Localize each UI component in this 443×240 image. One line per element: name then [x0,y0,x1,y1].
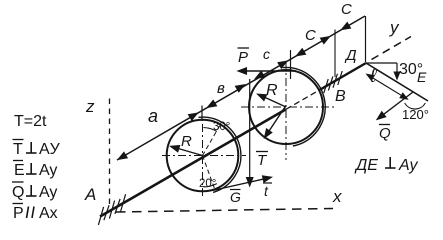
dimension line (thread) from z-axis to C [117,16,365,160]
svg-text:G: G [230,189,241,205]
dashed radius 30 deg (pulley 1 top) [203,124,221,155]
svg-text:120°: 120° [402,107,429,122]
length dimension line along DE [368,75,406,98]
svg-text:a: a [148,106,158,126]
svg-text:B: B [335,88,346,105]
svg-text:R: R [266,82,278,99]
svg-text:y: y [389,18,400,37]
x axis (horizontal dashed) [116,209,333,213]
svg-text:30°: 30° [213,121,230,133]
force Q arrow at E [378,92,413,118]
tick at tangent point of left pulley [201,106,203,122]
svg-text:Д: Д [344,47,357,64]
svg-text:z: z [85,97,95,116]
svg-text:Ay: Ay [39,162,57,179]
dim arrowheads [118,152,127,159]
pulley 2 radius arrow R [259,95,286,107]
30 deg arc (pulley 1) [204,128,217,132]
thread arc wrapped on pulley 1 rim [199,117,241,192]
pulley 2 (right disk) [249,70,323,144]
support hatching at A [98,207,103,225]
z axis (vertical dashed) [109,99,111,205]
svg-text:x: x [332,187,342,206]
svg-text:ДЕ: ДЕ [354,157,378,174]
svg-text:E: E [14,162,25,179]
pulley 2 horizontal centerline [241,106,334,108]
120 deg arc at E [405,103,426,109]
svg-text:C: C [305,27,316,44]
svg-text:Ax: Ax [39,205,58,222]
thread arc wrapped on pulley 2 rim [283,67,326,146]
rod DE [366,63,428,101]
vertical segment C down to D [365,16,367,62]
force T arrow (from pulley 2 center, down-left) [266,106,286,137]
pulley 1 horizontal centerline [162,155,246,157]
svg-text:T=2t: T=2t [14,113,47,130]
svg-text:в: в [217,80,225,97]
svg-text:AУ: AУ [39,141,61,158]
dashed radius 20 deg (pulley 1 bottom) [203,156,215,190]
svg-text:Ау: Ау [398,157,418,174]
svg-text:c: c [263,46,270,62]
svg-text:T: T [13,141,23,158]
svg-text:C: C [341,1,352,18]
svg-text:ℓ: ℓ [369,66,377,87]
support hatching at B [324,79,328,93]
20 deg arc (pulley 1) [204,184,217,187]
pulley 1 radius arrow R [173,147,203,156]
svg-text:P: P [13,205,24,222]
svg-text:20°: 20° [199,178,216,190]
svg-text:Q: Q [12,184,24,201]
weight G hanger line [249,79,251,185]
svg-text:Ay: Ay [39,184,57,201]
force P arrow (horizontal, leftward) [240,70,296,72]
horizontal reference line at D [366,62,397,64]
svg-text:A: A [84,185,96,204]
svg-text:R: R [181,133,192,150]
y axis (dashed, top right) [372,37,412,60]
30 deg vertical arrow at D [396,63,398,78]
pulley 1 (left disk) [167,120,239,192]
pulley 2 vertical centerline [285,62,287,160]
beam A-D (main inclined rod through both centers) [100,109,286,216]
force t arrow (lower thread) [213,178,271,191]
tick at tangent point of right pulley [290,50,292,79]
svg-text:Q: Q [379,125,391,142]
pulley 1 vertical centerline [202,124,204,197]
svg-text:E: E [417,69,427,85]
svg-text:P: P [238,49,248,66]
vertical extension line from dimension line down to B [334,30,336,78]
